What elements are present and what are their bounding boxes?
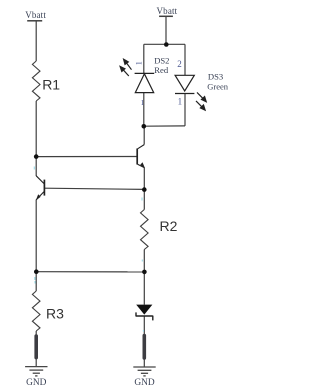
svg-text:1: 1 — [178, 97, 183, 107]
svg-text:DS3: DS3 — [208, 72, 223, 82]
svg-text:R1: R1 — [42, 76, 60, 92]
svg-text:GND: GND — [26, 378, 47, 388]
svg-text:Red: Red — [154, 65, 169, 75]
svg-text:1: 1 — [141, 98, 145, 107]
svg-text:DS2: DS2 — [154, 55, 169, 65]
svg-text:R3: R3 — [46, 305, 64, 321]
svg-text:2: 2 — [177, 59, 182, 69]
svg-text:R2: R2 — [160, 218, 178, 234]
svg-text:1: 1 — [134, 61, 143, 65]
svg-text:GND: GND — [134, 378, 155, 388]
svg-text:Green: Green — [207, 81, 229, 91]
svg-text:Vbatt: Vbatt — [157, 6, 178, 16]
svg-text:Vbatt: Vbatt — [25, 10, 46, 20]
